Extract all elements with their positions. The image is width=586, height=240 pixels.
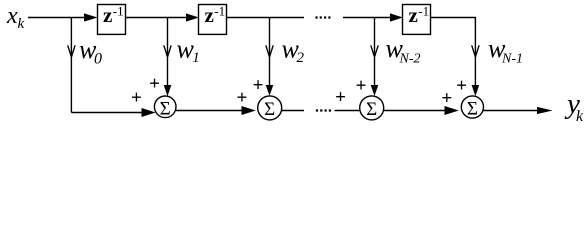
label wN-2 — [386, 34, 421, 67]
open arrowhead on tap w1 — [164, 45, 171, 57]
svg-text:z: z — [205, 3, 214, 27]
svg-text:2: 2 — [297, 50, 305, 66]
arrowhead into Z1 — [84, 13, 98, 21]
svg-text:1: 1 — [192, 50, 200, 66]
svg-text:N-2: N-2 — [399, 52, 421, 67]
wire: summer S1 to summer S2 — [176, 110, 243, 112]
open arrowhead on tap w0 — [68, 45, 75, 57]
svg-text:+: + — [131, 88, 142, 109]
svg-text:+: + — [236, 88, 247, 109]
wire: tap w2 vertical — [269, 18, 271, 92]
svg-text:Σ: Σ — [467, 98, 478, 119]
arrowhead down into summer S3 — [371, 85, 379, 96]
summer S2 — [258, 96, 282, 120]
open arrowhead on tap w2 — [266, 45, 273, 57]
svg-text:Σ: Σ — [264, 99, 275, 120]
svg-text:z: z — [409, 3, 418, 27]
svg-text:+: + — [456, 76, 467, 97]
label wN-1 — [488, 34, 523, 67]
wire: tap w0 vertical from junction — [70, 18, 72, 113]
delay block Z1 — [98, 3, 126, 34]
label w1 — [177, 35, 200, 67]
ellipsis dots on top rail — [315, 16, 330, 18]
arrowhead into summer S1 left — [142, 108, 156, 117]
arrowhead output yk — [537, 107, 553, 114]
arrowhead down into summer S2 — [266, 85, 274, 96]
summer S4 — [461, 96, 483, 119]
wire: input xk to delay block Z1 — [28, 17, 87, 19]
svg-text:k: k — [18, 16, 25, 32]
arrowhead into summer S4 left — [445, 106, 459, 115]
delay block Z2 — [199, 3, 227, 34]
node: output label yk — [564, 88, 584, 125]
node: input label xk — [6, 3, 25, 32]
wire: tap w0 horizontal into summer S1 — [71, 112, 143, 114]
wire: segment into summer S3 — [335, 110, 361, 112]
wire: Z3 output elbow down to tap wN-1 — [430, 18, 475, 93]
arrowhead into Z3 — [390, 13, 403, 21]
svg-text:+: + — [441, 88, 452, 109]
svg-text:+: + — [149, 74, 160, 95]
svg-text:Σ: Σ — [366, 99, 377, 120]
svg-text:+: + — [253, 75, 264, 96]
wire: Z1 output to Z2 input — [125, 17, 189, 19]
svg-text:k: k — [576, 108, 584, 125]
open arrowhead on tap wN-1 — [472, 45, 479, 57]
wire: tap wN-2 vertical — [374, 18, 376, 92]
arrowhead down into summer S1 — [164, 85, 172, 96]
label w2 — [282, 35, 305, 67]
wire: summer S4 to output yk — [484, 110, 539, 112]
summer S3 — [360, 96, 384, 120]
svg-text:Σ: Σ — [160, 98, 171, 119]
summer S1 — [154, 96, 176, 119]
wire: summer S2 output segment — [282, 110, 304, 112]
ellipsis dots on bottom rail — [316, 109, 331, 111]
svg-text:z: z — [103, 3, 112, 27]
arrowhead down into summer S4 — [472, 85, 480, 96]
svg-text:-1: -1 — [418, 4, 429, 19]
delay block Z3 — [403, 3, 431, 34]
svg-text:+: + — [356, 76, 367, 97]
wire: summer S3 to summer S4 — [384, 110, 446, 112]
svg-text:x: x — [6, 3, 18, 29]
arrowhead into summer S2 left — [242, 106, 256, 115]
svg-text:-1: -1 — [214, 4, 225, 19]
svg-text:+: + — [335, 87, 346, 108]
wire: tap w1 vertical — [167, 18, 169, 92]
open arrowhead on tap wN-2 — [371, 45, 378, 57]
arrowhead into Z2 — [186, 13, 199, 21]
svg-text:-1: -1 — [113, 4, 124, 19]
svg-text:N-1: N-1 — [501, 52, 523, 67]
label w0 — [79, 35, 102, 67]
wire: Z2 output rail segment — [226, 17, 304, 19]
wire: rail segment into Z3 — [343, 17, 393, 19]
svg-text:0: 0 — [94, 51, 102, 68]
